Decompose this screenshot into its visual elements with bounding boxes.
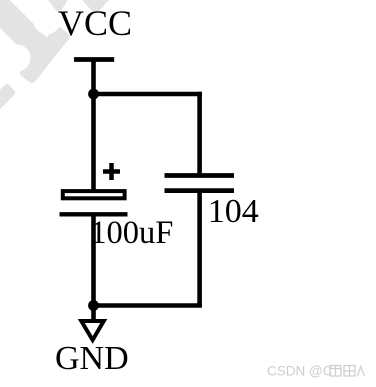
- node: bottom junction: [88, 300, 99, 311]
- capacitor C2 bottom plate: [165, 188, 235, 193]
- watermark: [0, 0, 109, 110]
- polarity mark + of C1: [103, 163, 120, 180]
- node: top junction: [88, 89, 99, 100]
- capacitor C2 top plate: [165, 173, 235, 178]
- wire: top horizontal: [94, 92, 202, 97]
- ground symbol: [81, 321, 104, 340]
- capacitor C1 electrolytic top plate: [63, 191, 125, 198]
- svg-text:104: 104: [208, 193, 259, 230]
- capacitor C1 bottom plate: [60, 212, 128, 216]
- wire: VCC bar to top node: [91, 60, 96, 95]
- wire: C2 to bottom wire: [197, 191, 202, 306]
- svg-text:100uF: 100uF: [90, 215, 173, 251]
- power rail VCC bar: [74, 57, 114, 62]
- watermark CJK glyphs: [330, 366, 365, 377]
- wire: left branch to C1: [91, 94, 96, 191]
- wire: right branch top vertical: [197, 92, 202, 176]
- wire: C1 to bottom node: [91, 216, 96, 306]
- svg-text:GND: GND: [55, 340, 129, 377]
- svg-text:CSDN @C: CSDN @C: [267, 364, 333, 379]
- wire: bottom horizontal: [94, 303, 202, 308]
- wire: bottom node to ground: [91, 306, 96, 321]
- svg-text:VCC: VCC: [58, 3, 132, 43]
